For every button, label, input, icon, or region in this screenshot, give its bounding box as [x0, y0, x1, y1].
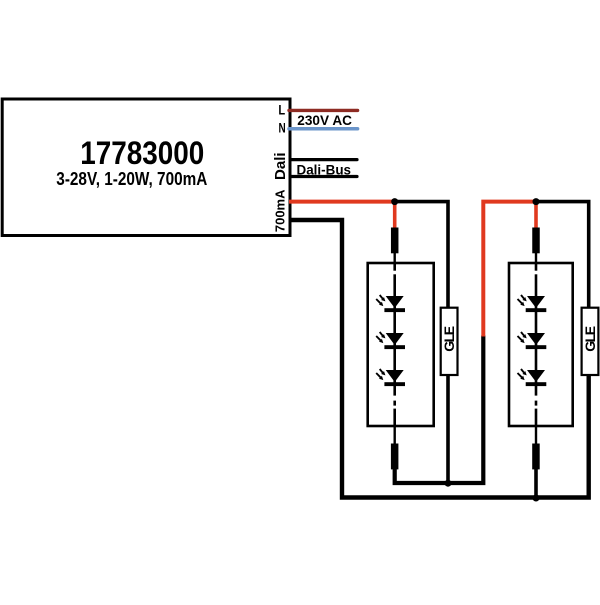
svg-text:GLE: GLE [582, 326, 598, 351]
svg-text:230V AC: 230V AC [297, 112, 352, 128]
svg-text:Dali-Bus: Dali-Bus [297, 162, 352, 178]
svg-text:17783000: 17783000 [80, 135, 204, 171]
svg-text:GLE: GLE [441, 326, 457, 351]
svg-text:3-28V, 1-20W, 700mA: 3-28V, 1-20W, 700mA [56, 169, 207, 189]
svg-text:N: N [279, 120, 286, 136]
svg-text:L: L [278, 102, 285, 118]
svg-text:700mA: 700mA [272, 189, 287, 232]
svg-text:Dali: Dali [272, 152, 289, 180]
